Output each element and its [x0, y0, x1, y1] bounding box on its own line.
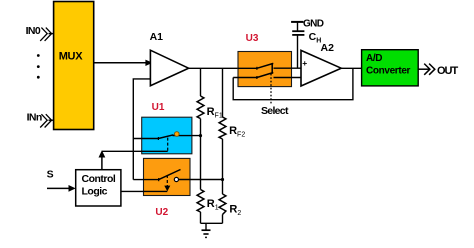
- wire left ladder middle segment: [200, 119, 202, 190]
- output port chevron OUT: [424, 64, 435, 75]
- switch U3 lower contact tick: [256, 76, 258, 79]
- node U2 open contact circle: [174, 177, 178, 181]
- ground ladder: [202, 223, 211, 237]
- wire left ladder bottom segment: [200, 212, 202, 223]
- wire A/D converter output: [418, 68, 429, 70]
- input port chevron INn: [40, 114, 51, 127]
- switch U3 upper arm: [257, 63, 273, 68]
- svg-text:Control: Control: [82, 173, 116, 185]
- wire U3 select control (dotted): [270, 74, 272, 104]
- svg-text:GND: GND: [303, 19, 324, 30]
- op-amp A2: [301, 50, 341, 86]
- svg-text:MUX: MUX: [59, 50, 84, 62]
- switch U3 gang linkage bar: [271, 63, 273, 74]
- wire right ladder bottom segment: [222, 215, 224, 224]
- wire U3 lower pole right to A2 - input: [274, 77, 302, 79]
- switch U1 box: [142, 117, 192, 154]
- wire ladder bottom joining: [201, 222, 223, 224]
- resistor R1: [197, 190, 204, 213]
- switch U3 lower arm: [257, 73, 273, 78]
- wire A2 output to A/D converter: [341, 67, 361, 69]
- wire U2 control linkage (dashed with arrow): [166, 175, 168, 187]
- switch U3 upper contact tick: [256, 67, 258, 70]
- wire U3 upper pole left: [238, 67, 257, 69]
- svg-text:A/D: A/D: [366, 53, 382, 64]
- wire CH bottom plate to A2 + input: [297, 35, 299, 68]
- node ellipsis dots between inputs: [37, 54, 40, 79]
- input port chevron IN0: [40, 28, 51, 41]
- wire U3 upper pole right to A2 + input: [274, 67, 302, 69]
- svg-text:U2: U2: [155, 207, 168, 218]
- mux MUX block: [54, 2, 94, 130]
- wire A1 inverting input feedback (vertical): [133, 79, 150, 180]
- switch U3 box: [238, 52, 292, 87]
- wire U2 output to RF2/R2 junction: [179, 179, 223, 181]
- node junction U1 tap: [199, 134, 202, 137]
- svg-text:A2: A2: [321, 42, 335, 54]
- wire INn stub into MUX: [49, 119, 54, 121]
- wire U1 control linkage (dashed): [167, 138, 169, 152]
- ground GND symbol at CH: [291, 21, 303, 23]
- wire control logic to U2: [121, 190, 167, 192]
- svg-text:OUT: OUT: [437, 65, 459, 77]
- switch U2 box: [144, 158, 191, 195]
- capacitor CH: [292, 31, 304, 35]
- block A/D converter: [362, 50, 419, 86]
- wire A1 output node to U3: [189, 67, 238, 69]
- node junction U2 tap: [221, 178, 224, 181]
- wire control logic to U1 (up arrow then right): [101, 157, 103, 170]
- wire S input arrow into control logic: [47, 187, 70, 189]
- wire GND to CH top plate: [297, 22, 299, 31]
- wire U3 lower pole left stub (from feedback): [233, 77, 257, 79]
- wire feedback into U2 switch: [133, 179, 158, 181]
- svg-text:IN0: IN0: [26, 25, 41, 37]
- svg-text:Converter: Converter: [366, 66, 411, 77]
- resistor RF2: [219, 117, 226, 139]
- svg-text:INn: INn: [27, 112, 42, 124]
- wire U1 output to RF1/R1 junction: [173, 135, 201, 137]
- switch U1 arm (closed): [158, 135, 173, 139]
- control logic box: [76, 170, 121, 206]
- wire A2 feedback loop rectangle: [233, 68, 353, 99]
- svg-text:+: +: [302, 58, 307, 68]
- wire right ladder top segment: [222, 68, 224, 117]
- wire feedback into U1 switch: [133, 138, 158, 140]
- svg-text:Select: Select: [261, 105, 289, 117]
- svg-text:U1: U1: [152, 102, 165, 113]
- wire right ladder middle segment: [222, 139, 224, 194]
- node U1 closed contact dot: [175, 132, 180, 137]
- switch U2 arm (open): [159, 170, 181, 180]
- svg-text:U3: U3: [246, 33, 259, 44]
- svg-text:Logic: Logic: [82, 185, 108, 197]
- op-amp A1: [150, 50, 188, 85]
- svg-text:S: S: [47, 169, 54, 181]
- resistor R2: [219, 194, 226, 215]
- svg-text:A1: A1: [150, 31, 164, 43]
- wire MUX output to A1 noninverting input: [94, 62, 146, 64]
- wire left ladder top segment: [200, 68, 202, 96]
- switch U2 contact tick: [158, 178, 160, 181]
- wire IN0 stub into MUX: [49, 33, 54, 35]
- switch U1 contact tick: [157, 137, 159, 140]
- resistor RF1: [197, 96, 204, 119]
